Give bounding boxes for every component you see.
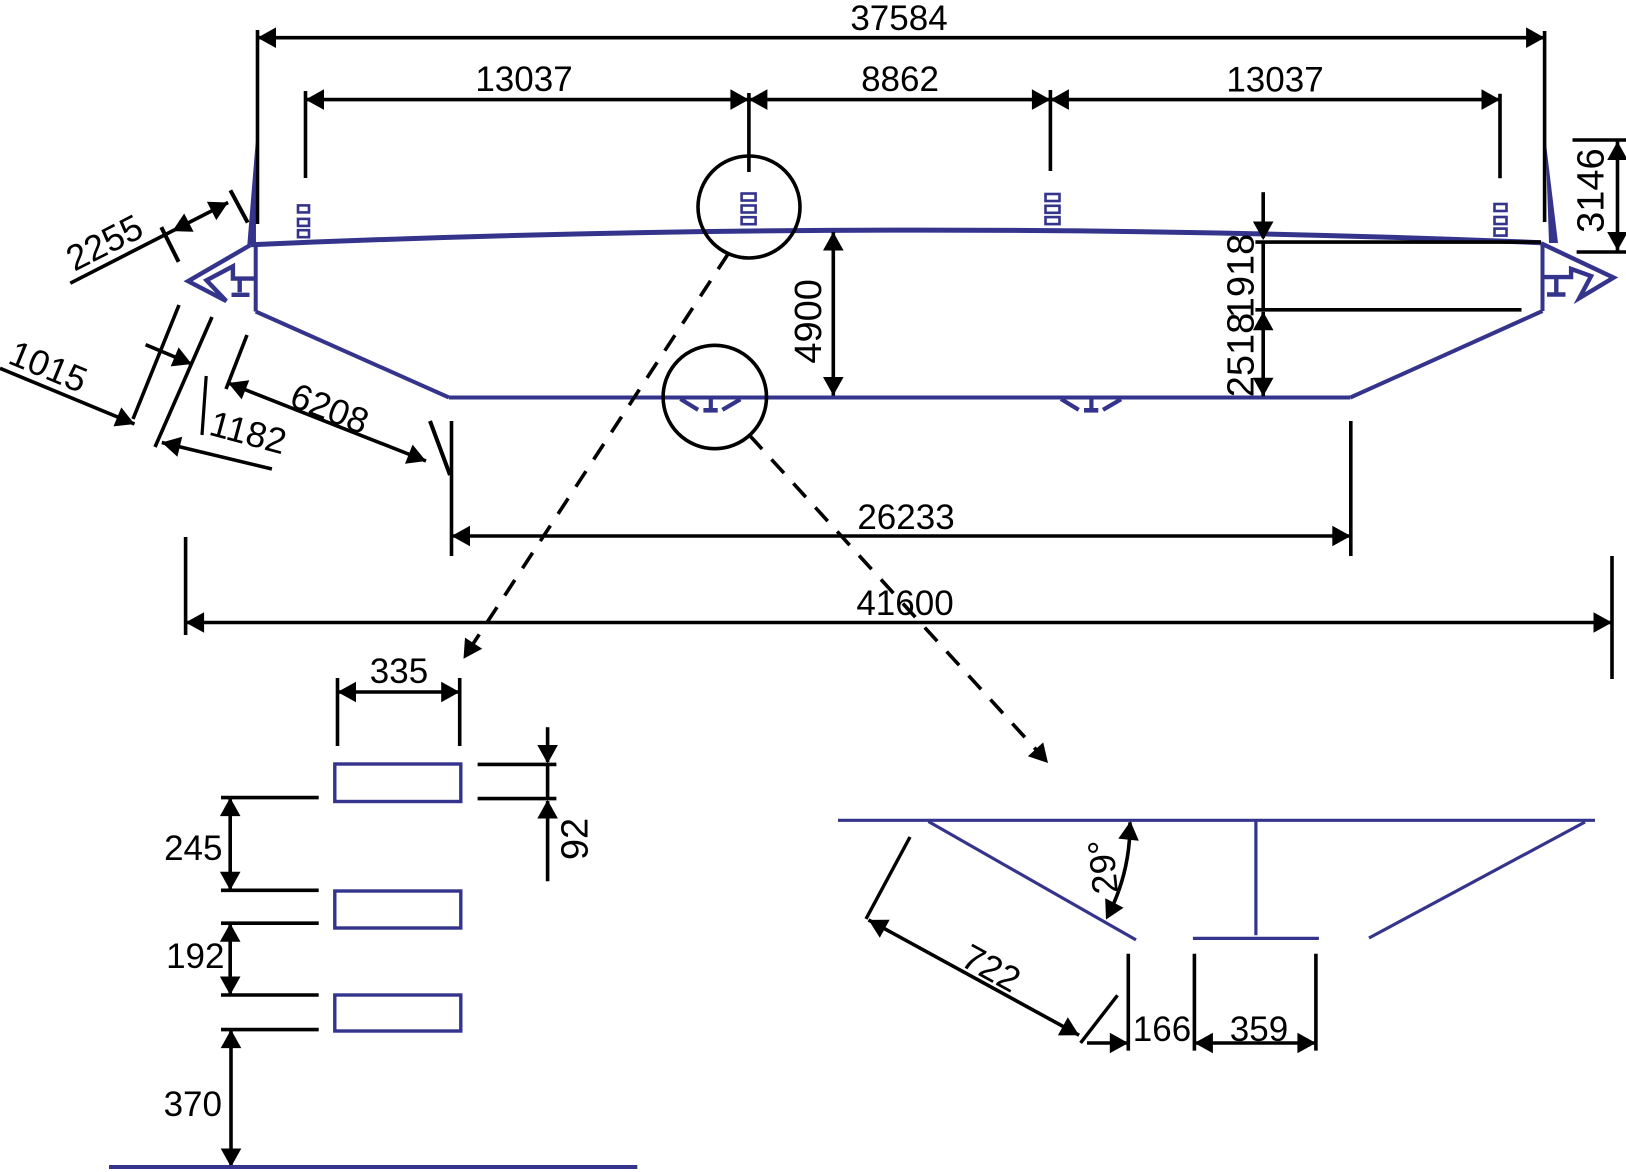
lane marker stack mid-right bbox=[1046, 194, 1060, 201]
row2 extension line d bbox=[1498, 94, 1502, 179]
oblique extension line 2 bbox=[155, 317, 212, 447]
dim 370 down arrowhead bbox=[221, 1149, 242, 1168]
dim 37584 line bbox=[258, 36, 1545, 40]
dim 37584 left extension line bbox=[256, 30, 260, 224]
detail-L tick C bbox=[221, 921, 319, 925]
dim 1015 line bbox=[0, 368, 135, 424]
dim 37584 right arrowhead bbox=[1526, 27, 1545, 48]
angle arc upper arrowhead bbox=[1118, 821, 1139, 841]
dim 1918 line bbox=[1261, 242, 1265, 310]
dim 1918 upper pointer arrowhead bbox=[1253, 222, 1274, 241]
dim 722 upper arrowhead bbox=[869, 920, 890, 938]
dim 3146 bottom tick bbox=[1577, 250, 1626, 254]
dim 3146 top tick bbox=[1573, 138, 1626, 142]
svg-text:13037: 13037 bbox=[475, 60, 572, 99]
dim 1182 leader bbox=[202, 376, 206, 435]
stiffener rect 2 bbox=[335, 891, 461, 928]
detail-L 335 right arrowhead bbox=[441, 682, 460, 703]
dim 92 top tick bbox=[478, 763, 557, 767]
dim 1182 line bbox=[162, 443, 272, 470]
dim 3146 up arrowhead bbox=[1607, 142, 1626, 161]
dim 2255 arrowhead lower bbox=[172, 214, 193, 232]
dim 2255 line bbox=[70, 203, 228, 284]
dim 92 crossing line bbox=[546, 764, 550, 798]
dashed leader to left detail bbox=[471, 254, 728, 647]
detail-L tick A bbox=[221, 796, 319, 800]
svg-text:26233: 26233 bbox=[857, 498, 954, 537]
angle 29 arc bbox=[1107, 822, 1130, 916]
dim 92 bottom tick bbox=[478, 797, 557, 801]
left bearing symbol bbox=[680, 399, 698, 410]
dim 359 line bbox=[1194, 1041, 1316, 1045]
detail-L tick B bbox=[221, 888, 319, 892]
detail-R right diagonal bbox=[1369, 822, 1585, 938]
detail-R top slab line bbox=[838, 819, 1595, 822]
stiffener rect 3 bbox=[335, 995, 461, 1031]
leader left arrowhead bbox=[464, 638, 483, 659]
right bearing symbol bbox=[1061, 399, 1079, 410]
detail-R inclined web bbox=[928, 822, 1136, 940]
leader right arrowhead bbox=[1028, 742, 1048, 763]
dim 6208 arrowhead right bbox=[405, 445, 426, 464]
dim 26233 right arrowhead bbox=[1332, 526, 1351, 547]
dim 722 ext line lower bbox=[1081, 995, 1118, 1043]
detail-R bottom flange bbox=[1193, 937, 1319, 940]
svg-text:3146: 3146 bbox=[1571, 148, 1613, 233]
dim 1918 upper pointer line bbox=[1261, 192, 1265, 238]
row2 arrowhead c-right bbox=[1050, 89, 1069, 110]
detail-L dim 335 line bbox=[338, 690, 460, 694]
right web wall bbox=[1541, 243, 1545, 311]
right railing post bbox=[1546, 140, 1559, 244]
right bottom inclined wall bbox=[1350, 311, 1542, 398]
detail-L dim 335 right extension bbox=[458, 678, 462, 746]
dim 4900 up arrowhead bbox=[823, 232, 844, 251]
dashed leader to right detail bbox=[750, 435, 1041, 755]
dim 2518 up arrowhead bbox=[1253, 312, 1274, 331]
dim 3146 down arrowhead bbox=[1607, 232, 1626, 251]
detail-L 335 left arrowhead bbox=[338, 682, 357, 703]
svg-text:166: 166 bbox=[1133, 1010, 1191, 1049]
svg-text:29°: 29° bbox=[1080, 838, 1126, 896]
dim 722 lower arrowhead bbox=[1058, 1017, 1079, 1035]
dim 41600 left arrowhead bbox=[186, 612, 205, 633]
oblique extension line 3 bbox=[226, 335, 247, 389]
left railing post bbox=[247, 141, 256, 246]
lane marker stack right bbox=[1495, 204, 1507, 211]
oblique extension line 1 bbox=[133, 305, 179, 419]
dim 166 ext line right bbox=[1193, 954, 1197, 1051]
detail-L dim 335 left extension bbox=[336, 678, 340, 746]
stiffener rect 1 bbox=[335, 764, 461, 802]
row2 arrowhead a-right bbox=[306, 89, 325, 110]
dim 245 line bbox=[228, 798, 232, 891]
dim 26233 right extension line bbox=[1349, 421, 1353, 556]
dim 37584 right extension line bbox=[1543, 31, 1547, 222]
dim 722 ext line upper bbox=[866, 837, 910, 919]
ground floor line bbox=[109, 1165, 637, 1169]
dim 92 upper arrowhead bbox=[537, 745, 558, 764]
right tip I-beam mark bbox=[1547, 278, 1566, 295]
dim 166 stub arrow line bbox=[1087, 1041, 1128, 1045]
detail-L tick D bbox=[221, 993, 319, 997]
dim 26233 left extension line bbox=[450, 421, 454, 556]
svg-text:1918: 1918 bbox=[1221, 234, 1263, 319]
dim 41600 right arrowhead bbox=[1594, 612, 1613, 633]
dim 41600 left extension line bbox=[184, 537, 188, 635]
left tip I-beam mark bbox=[232, 279, 250, 295]
svg-text:359: 359 bbox=[1230, 1010, 1288, 1049]
dim 166 ext line left bbox=[1127, 954, 1131, 1051]
dim 1015 arrowhead bbox=[114, 407, 135, 426]
dim 4900 down arrowhead bbox=[823, 377, 844, 396]
dim 192 down arrowhead bbox=[220, 977, 241, 996]
dim 359 left arrowhead bbox=[1194, 1033, 1213, 1054]
svg-text:4900: 4900 bbox=[788, 279, 830, 364]
dim 6208 arrowhead left bbox=[228, 380, 249, 399]
dim 2255 arrowhead upper bbox=[207, 202, 228, 220]
bridge deck top edge (cambered roadway line) bbox=[251, 230, 1541, 245]
svg-text:370: 370 bbox=[164, 1085, 222, 1124]
detail-R vertical web stem bbox=[1254, 820, 1257, 935]
row2 arrowhead b-right bbox=[749, 89, 768, 110]
svg-text:192: 192 bbox=[166, 937, 224, 976]
dim 41600 line bbox=[186, 621, 1612, 625]
row2 arrowhead d-left bbox=[1482, 89, 1501, 110]
dim 92 upper pointer bbox=[546, 727, 550, 762]
row2 extension line c bbox=[1049, 90, 1053, 171]
short oblique dim arrow line bbox=[146, 345, 192, 364]
row2 arrowhead c-left bbox=[1032, 89, 1051, 110]
lane marker stack left bbox=[298, 205, 309, 212]
dim 2518 line bbox=[1261, 312, 1265, 397]
row2 extension line b bbox=[747, 93, 751, 172]
dim 37584 left arrowhead bbox=[258, 27, 277, 48]
dim 41600 right extension line bbox=[1610, 556, 1614, 679]
dim 1918 top tick bbox=[1255, 240, 1541, 244]
dim 2255 tick upper bbox=[230, 190, 247, 222]
left deck tip edge-beam detail bbox=[188, 245, 256, 301]
dim 6208 end tick bbox=[430, 421, 450, 475]
dim 1182 arrowhead bbox=[162, 437, 182, 457]
svg-text:245: 245 bbox=[164, 829, 222, 868]
dim 166 stub arrowhead bbox=[1110, 1033, 1129, 1054]
svg-text:2518: 2518 bbox=[1221, 313, 1263, 398]
dim row2 line bbox=[306, 98, 1501, 102]
svg-text:92: 92 bbox=[555, 818, 597, 860]
right deck tip edge-beam detail bbox=[1541, 243, 1614, 298]
dim 359 ext line right bbox=[1314, 954, 1318, 1051]
detail circle 2 bbox=[663, 345, 766, 448]
dim 4900 line bbox=[831, 232, 835, 396]
dim 245 up arrowhead bbox=[220, 798, 241, 817]
svg-text:8862: 8862 bbox=[861, 60, 939, 99]
dim 359 right arrowhead bbox=[1297, 1033, 1316, 1054]
dim 2255 tick lower bbox=[161, 227, 178, 262]
dim 1918 bottom tick bbox=[1255, 308, 1521, 312]
dim 192 line bbox=[228, 923, 232, 995]
row2 arrowhead b-left bbox=[730, 89, 749, 110]
dim 370 line bbox=[229, 1030, 233, 1167]
dim 26233 left arrowhead bbox=[452, 526, 471, 547]
dim 92 lower arrowhead bbox=[537, 800, 558, 819]
left web wall bbox=[254, 243, 258, 312]
dim 2518 down arrowhead bbox=[1253, 378, 1274, 397]
short oblique dim arrowhead bbox=[171, 347, 192, 366]
bottom slab line bbox=[449, 396, 1350, 400]
left bottom inclined wall bbox=[256, 312, 449, 398]
lane marker stack mid-left (in circle) bbox=[742, 194, 756, 201]
detail circle 1 bbox=[698, 156, 800, 258]
dim 92 lower pointer bbox=[546, 801, 550, 881]
svg-text:13037: 13037 bbox=[1226, 61, 1323, 100]
angle arc lower arrowhead bbox=[1105, 898, 1123, 919]
svg-text:335: 335 bbox=[370, 652, 428, 691]
detail-L tick E bbox=[221, 1028, 319, 1032]
dim 722 line bbox=[869, 920, 1080, 1035]
dim 26233 line bbox=[452, 534, 1351, 538]
dim 3146 line bbox=[1616, 142, 1620, 251]
dim 6208 line bbox=[228, 383, 426, 461]
svg-text:37584: 37584 bbox=[850, 0, 947, 38]
dim 192 up arrowhead bbox=[220, 923, 241, 942]
dim 245 down arrowhead bbox=[220, 872, 241, 891]
row2 extension line a bbox=[304, 91, 308, 178]
dim 370 up arrowhead bbox=[221, 1030, 242, 1049]
